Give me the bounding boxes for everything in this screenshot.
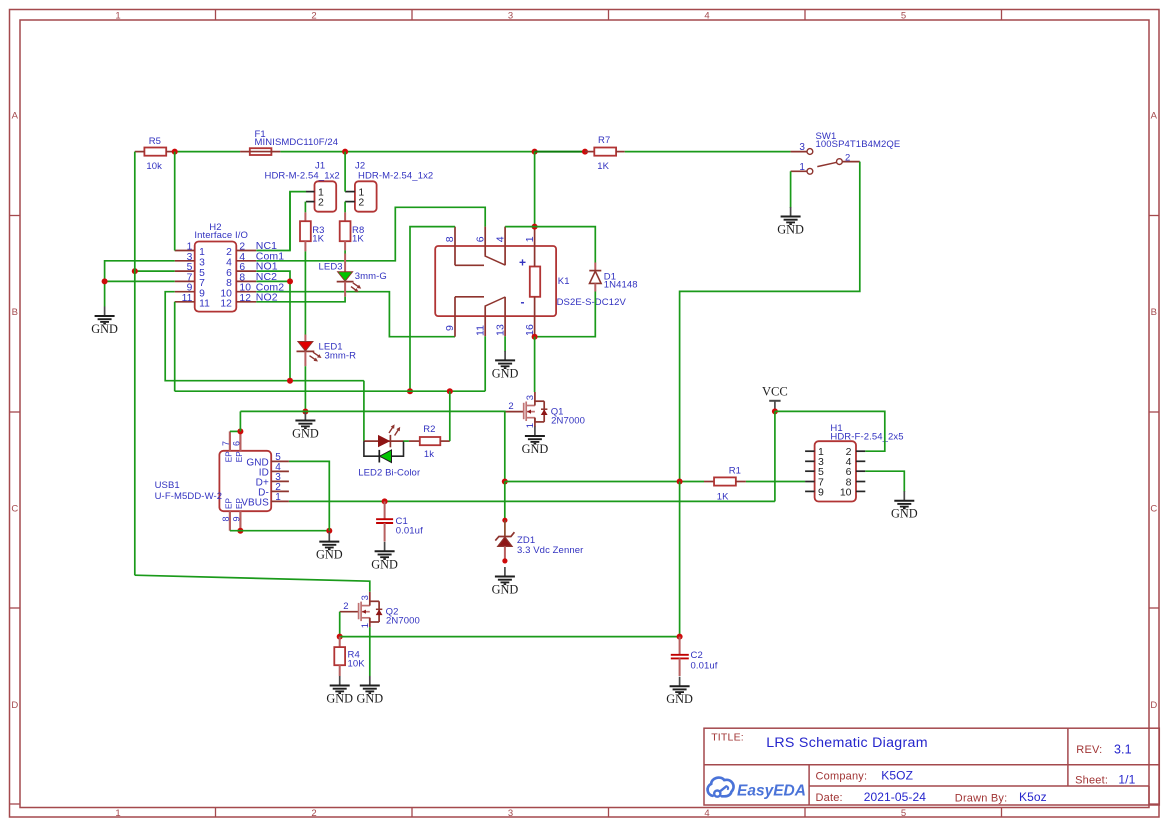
wire NC1 (256, 192, 290, 251)
ground (534, 427, 536, 437)
svg-text:2: 2 (343, 601, 348, 612)
wire (340, 636, 680, 638)
svg-text:11: 11 (199, 299, 210, 310)
wire (534, 337, 536, 392)
header J2 (355, 181, 377, 211)
junction (132, 268, 138, 274)
header H2 (195, 242, 237, 312)
wire (339, 612, 341, 637)
svg-text:K5OZ: K5OZ (881, 768, 913, 782)
svg-text:2: 2 (311, 10, 316, 21)
svg-text:R1: R1 (729, 465, 741, 476)
svg-text:B: B (1151, 307, 1157, 318)
wire (504, 482, 506, 521)
transistor Q1 pins (534, 392, 536, 401)
svg-text:EasyEDA: EasyEDA (737, 782, 806, 799)
ground (339, 676, 341, 686)
svg-text:U-F-M5DD-W-2: U-F-M5DD-W-2 (155, 491, 223, 502)
junction (287, 378, 293, 384)
junction (302, 409, 308, 415)
resistor R5 (144, 148, 166, 156)
wire (105, 261, 175, 307)
wire (344, 152, 346, 192)
wire Com1 (256, 207, 485, 260)
ground (369, 676, 371, 686)
wire (625, 151, 791, 153)
wire (746, 481, 805, 483)
svg-text:1: 1 (115, 808, 120, 819)
svg-text:5: 5 (901, 808, 906, 819)
svg-text:HDR-M-2.54_1x2: HDR-M-2.54_1x2 (265, 170, 340, 181)
usb connector USB1 (219, 451, 271, 511)
svg-text:1K: 1K (717, 491, 729, 502)
wire (135, 575, 370, 592)
zener diode ZD1 (504, 520, 506, 536)
svg-text:LRS Schematic Diagram: LRS Schematic Diagram (766, 735, 928, 751)
junction (502, 518, 507, 523)
svg-text:3: 3 (799, 142, 805, 153)
wire (230, 430, 241, 432)
wire (679, 482, 681, 637)
svg-text:9: 9 (818, 486, 824, 498)
junction (532, 224, 538, 230)
EasyEDA logo (708, 778, 734, 797)
header J1 (315, 181, 337, 211)
svg-text:1: 1 (115, 10, 120, 21)
svg-text:D: D (11, 700, 18, 711)
svg-text:3: 3 (508, 808, 513, 819)
svg-text:GND: GND (356, 692, 383, 706)
title block frame (704, 728, 1159, 805)
wire (135, 270, 175, 272)
svg-text:3mm-G: 3mm-G (355, 271, 387, 282)
wire VBUS (289, 500, 775, 502)
svg-text:1: 1 (524, 236, 536, 242)
wire (289, 461, 329, 530)
svg-text:MINISMDC110F/24: MINISMDC110F/24 (255, 137, 339, 148)
svg-text:1K: 1K (312, 233, 324, 244)
svg-text:1: 1 (275, 492, 281, 503)
junction (677, 479, 683, 485)
svg-text:GND: GND (91, 322, 118, 336)
svg-text:2021-05-24: 2021-05-24 (864, 790, 927, 804)
transistor Q2 (340, 611, 359, 613)
svg-text:Drawn By:: Drawn By: (955, 792, 1008, 804)
junction (237, 528, 243, 534)
svg-text:-: - (521, 295, 525, 309)
svg-text:8: 8 (221, 516, 231, 521)
junction (502, 479, 508, 485)
wire (175, 151, 240, 153)
junction (326, 528, 332, 534)
switch SW1 (791, 151, 807, 153)
svg-text:2: 2 (311, 808, 316, 819)
diode D1 (594, 263, 596, 271)
svg-text:12: 12 (239, 293, 251, 304)
svg-text:R2: R2 (423, 424, 435, 435)
ground (504, 567, 506, 577)
wire (134, 152, 136, 576)
wire NO1 (256, 271, 290, 381)
svg-text:12: 12 (220, 299, 232, 310)
svg-text:GND: GND (492, 366, 519, 380)
LED LED1 (304, 251, 306, 334)
svg-text:9: 9 (231, 516, 241, 521)
wire (505, 226, 534, 228)
wire (165, 292, 364, 381)
junction (407, 388, 413, 394)
wire (535, 292, 596, 337)
svg-text:4: 4 (704, 808, 709, 819)
svg-text:C2: C2 (691, 650, 703, 661)
junction (502, 558, 507, 563)
resistor R4 (339, 637, 341, 648)
svg-text:3.3 Vdc Zenner: 3.3 Vdc Zenner (517, 545, 583, 556)
svg-text:11: 11 (474, 325, 486, 336)
svg-text:VBUS: VBUS (241, 497, 269, 508)
wire (484, 336, 486, 391)
svg-text:R7: R7 (598, 135, 610, 146)
resistor R8 (344, 212, 346, 221)
wire (175, 390, 486, 392)
ground (504, 351, 506, 361)
transistor Q2 pins (369, 592, 371, 602)
svg-text:ZD1: ZD1 (517, 535, 535, 546)
svg-text:GND: GND (891, 507, 918, 521)
svg-text:13: 13 (494, 324, 506, 336)
svg-text:2N7000: 2N7000 (386, 616, 420, 627)
wire (774, 411, 776, 501)
svg-text:1/1: 1/1 (1118, 773, 1135, 787)
relay K1 lower contact (454, 297, 456, 316)
svg-text:2: 2 (508, 401, 513, 412)
svg-text:Date:: Date: (816, 792, 843, 804)
svg-text:C: C (11, 503, 18, 514)
wire Com2 (256, 292, 455, 337)
svg-text:2: 2 (845, 152, 850, 163)
resistor R2 (404, 440, 409, 442)
wire (505, 481, 704, 483)
ground (304, 411, 306, 421)
svg-text:GND: GND (326, 692, 353, 706)
svg-text:A: A (12, 110, 19, 121)
svg-text:EP: EP (235, 497, 244, 509)
wire (363, 381, 365, 441)
svg-text:D: D (1150, 700, 1157, 711)
svg-text:USB1: USB1 (155, 480, 180, 491)
svg-text:Sheet:: Sheet: (1075, 774, 1108, 786)
svg-text:EP: EP (224, 451, 233, 463)
wire (344, 202, 346, 213)
svg-text:HDR-M-2.54_1x2: HDR-M-2.54_1x2 (358, 170, 433, 181)
wire NO2 (256, 297, 345, 302)
svg-text:K1: K1 (558, 276, 570, 287)
wire (290, 192, 306, 251)
LED3 light arrows (353, 283, 359, 287)
junction (342, 149, 348, 155)
wire (790, 171, 792, 208)
svg-text:TITLE:: TITLE: (711, 731, 744, 743)
svg-text:1K: 1K (352, 233, 364, 244)
LED2 light arrows (389, 426, 393, 433)
wire (304, 202, 306, 213)
relay K1 upper contact (454, 246, 456, 265)
wire (369, 627, 371, 676)
wire (230, 530, 329, 532)
relay K1 coil (530, 267, 540, 297)
wire (504, 336, 506, 351)
svg-text:GND: GND (371, 557, 398, 571)
wire (534, 152, 536, 227)
svg-text:GND: GND (292, 427, 319, 441)
junction (772, 408, 778, 414)
wire (865, 471, 904, 492)
svg-text:0.01uf: 0.01uf (691, 661, 718, 672)
svg-text:2: 2 (358, 196, 364, 208)
svg-text:GND: GND (316, 548, 343, 562)
junction (102, 278, 108, 284)
wire NC2 (256, 280, 290, 282)
junction (532, 149, 538, 155)
svg-text:LED3: LED3 (319, 262, 343, 273)
svg-text:8: 8 (444, 236, 456, 242)
svg-text:6: 6 (231, 441, 241, 446)
svg-text:GND: GND (777, 223, 804, 237)
svg-text:3: 3 (508, 10, 513, 21)
wire (174, 152, 176, 251)
svg-text:B: B (12, 307, 18, 318)
svg-text:Company:: Company: (816, 770, 868, 782)
svg-text:10k: 10k (146, 161, 162, 172)
resistor R7 (585, 151, 595, 153)
svg-text:K5oz: K5oz (1019, 790, 1047, 804)
svg-text:GND: GND (522, 442, 549, 456)
resistor R3 (304, 212, 306, 221)
svg-text:9: 9 (444, 325, 456, 331)
svg-text:11: 11 (182, 293, 193, 304)
ground (384, 542, 386, 552)
svg-text:5: 5 (901, 10, 906, 21)
ground (104, 307, 106, 317)
svg-text:GND: GND (492, 583, 519, 597)
svg-text:3.1: 3.1 (1114, 742, 1132, 756)
svg-text:6: 6 (474, 236, 486, 242)
svg-text:EP: EP (224, 497, 233, 509)
svg-text:0.01uf: 0.01uf (396, 525, 423, 536)
wire (174, 302, 176, 391)
junction (172, 149, 178, 155)
junction (582, 149, 588, 155)
relay K1 pins (454, 227, 456, 246)
junction (287, 278, 293, 284)
junction (382, 498, 388, 504)
resistor R1 (704, 481, 714, 483)
svg-text:2: 2 (318, 196, 324, 208)
svg-text:LED2 Bi-Color: LED2 Bi-Color (358, 468, 420, 479)
svg-text:+: + (519, 256, 526, 270)
wire (775, 411, 885, 451)
svg-text:REV:: REV: (1076, 744, 1102, 756)
svg-text:Interface I/O: Interface I/O (194, 230, 248, 241)
svg-text:HDR-F-2.54_2x5: HDR-F-2.54_2x5 (830, 431, 903, 442)
capacitor C1 (384, 501, 386, 519)
ground (790, 207, 792, 217)
wire (680, 162, 860, 482)
LED LED2 bi-color (364, 440, 404, 442)
junction (337, 634, 343, 640)
svg-text:7: 7 (221, 441, 231, 446)
wire (410, 227, 455, 392)
svg-text:3mm-R: 3mm-R (325, 350, 357, 361)
fuse F1 (240, 151, 250, 153)
svg-text:4: 4 (494, 236, 506, 242)
wire (449, 391, 451, 441)
svg-text:1: 1 (799, 162, 805, 173)
svg-text:100SP4T1B4M2QE: 100SP4T1B4M2QE (816, 139, 901, 150)
svg-text:4: 4 (704, 10, 709, 21)
capacitor C2 (679, 637, 681, 655)
ground (328, 532, 330, 542)
svg-text:1K: 1K (597, 161, 609, 172)
svg-text:EP: EP (235, 451, 244, 463)
junction (447, 388, 453, 394)
svg-text:10: 10 (840, 486, 852, 498)
svg-text:C: C (1150, 503, 1157, 514)
junction (677, 634, 683, 640)
svg-text:1k: 1k (424, 449, 434, 460)
relay K1 box (435, 246, 556, 316)
LED LED3 (344, 250, 346, 253)
ground (679, 677, 681, 687)
wire (280, 151, 534, 153)
wire (535, 227, 596, 263)
header H1 (815, 441, 856, 501)
wire (240, 411, 504, 481)
svg-text:VCC: VCC (762, 385, 788, 399)
junction (237, 428, 243, 434)
svg-text:1N4148: 1N4148 (604, 279, 638, 290)
svg-text:A: A (1151, 110, 1158, 121)
transistor Q1 (505, 411, 524, 413)
LED1 light arrows (313, 352, 319, 356)
svg-text:10K: 10K (348, 658, 366, 669)
ground (903, 491, 905, 501)
wire (overlapped, darker) (535, 151, 585, 153)
svg-text:DS2E-S-DC12V: DS2E-S-DC12V (557, 297, 627, 308)
svg-text:R5: R5 (149, 136, 161, 147)
svg-text:2N7000: 2N7000 (551, 415, 585, 426)
wire (239, 411, 241, 431)
svg-text:GND: GND (666, 692, 693, 706)
wire (105, 280, 175, 282)
junction (532, 334, 538, 340)
